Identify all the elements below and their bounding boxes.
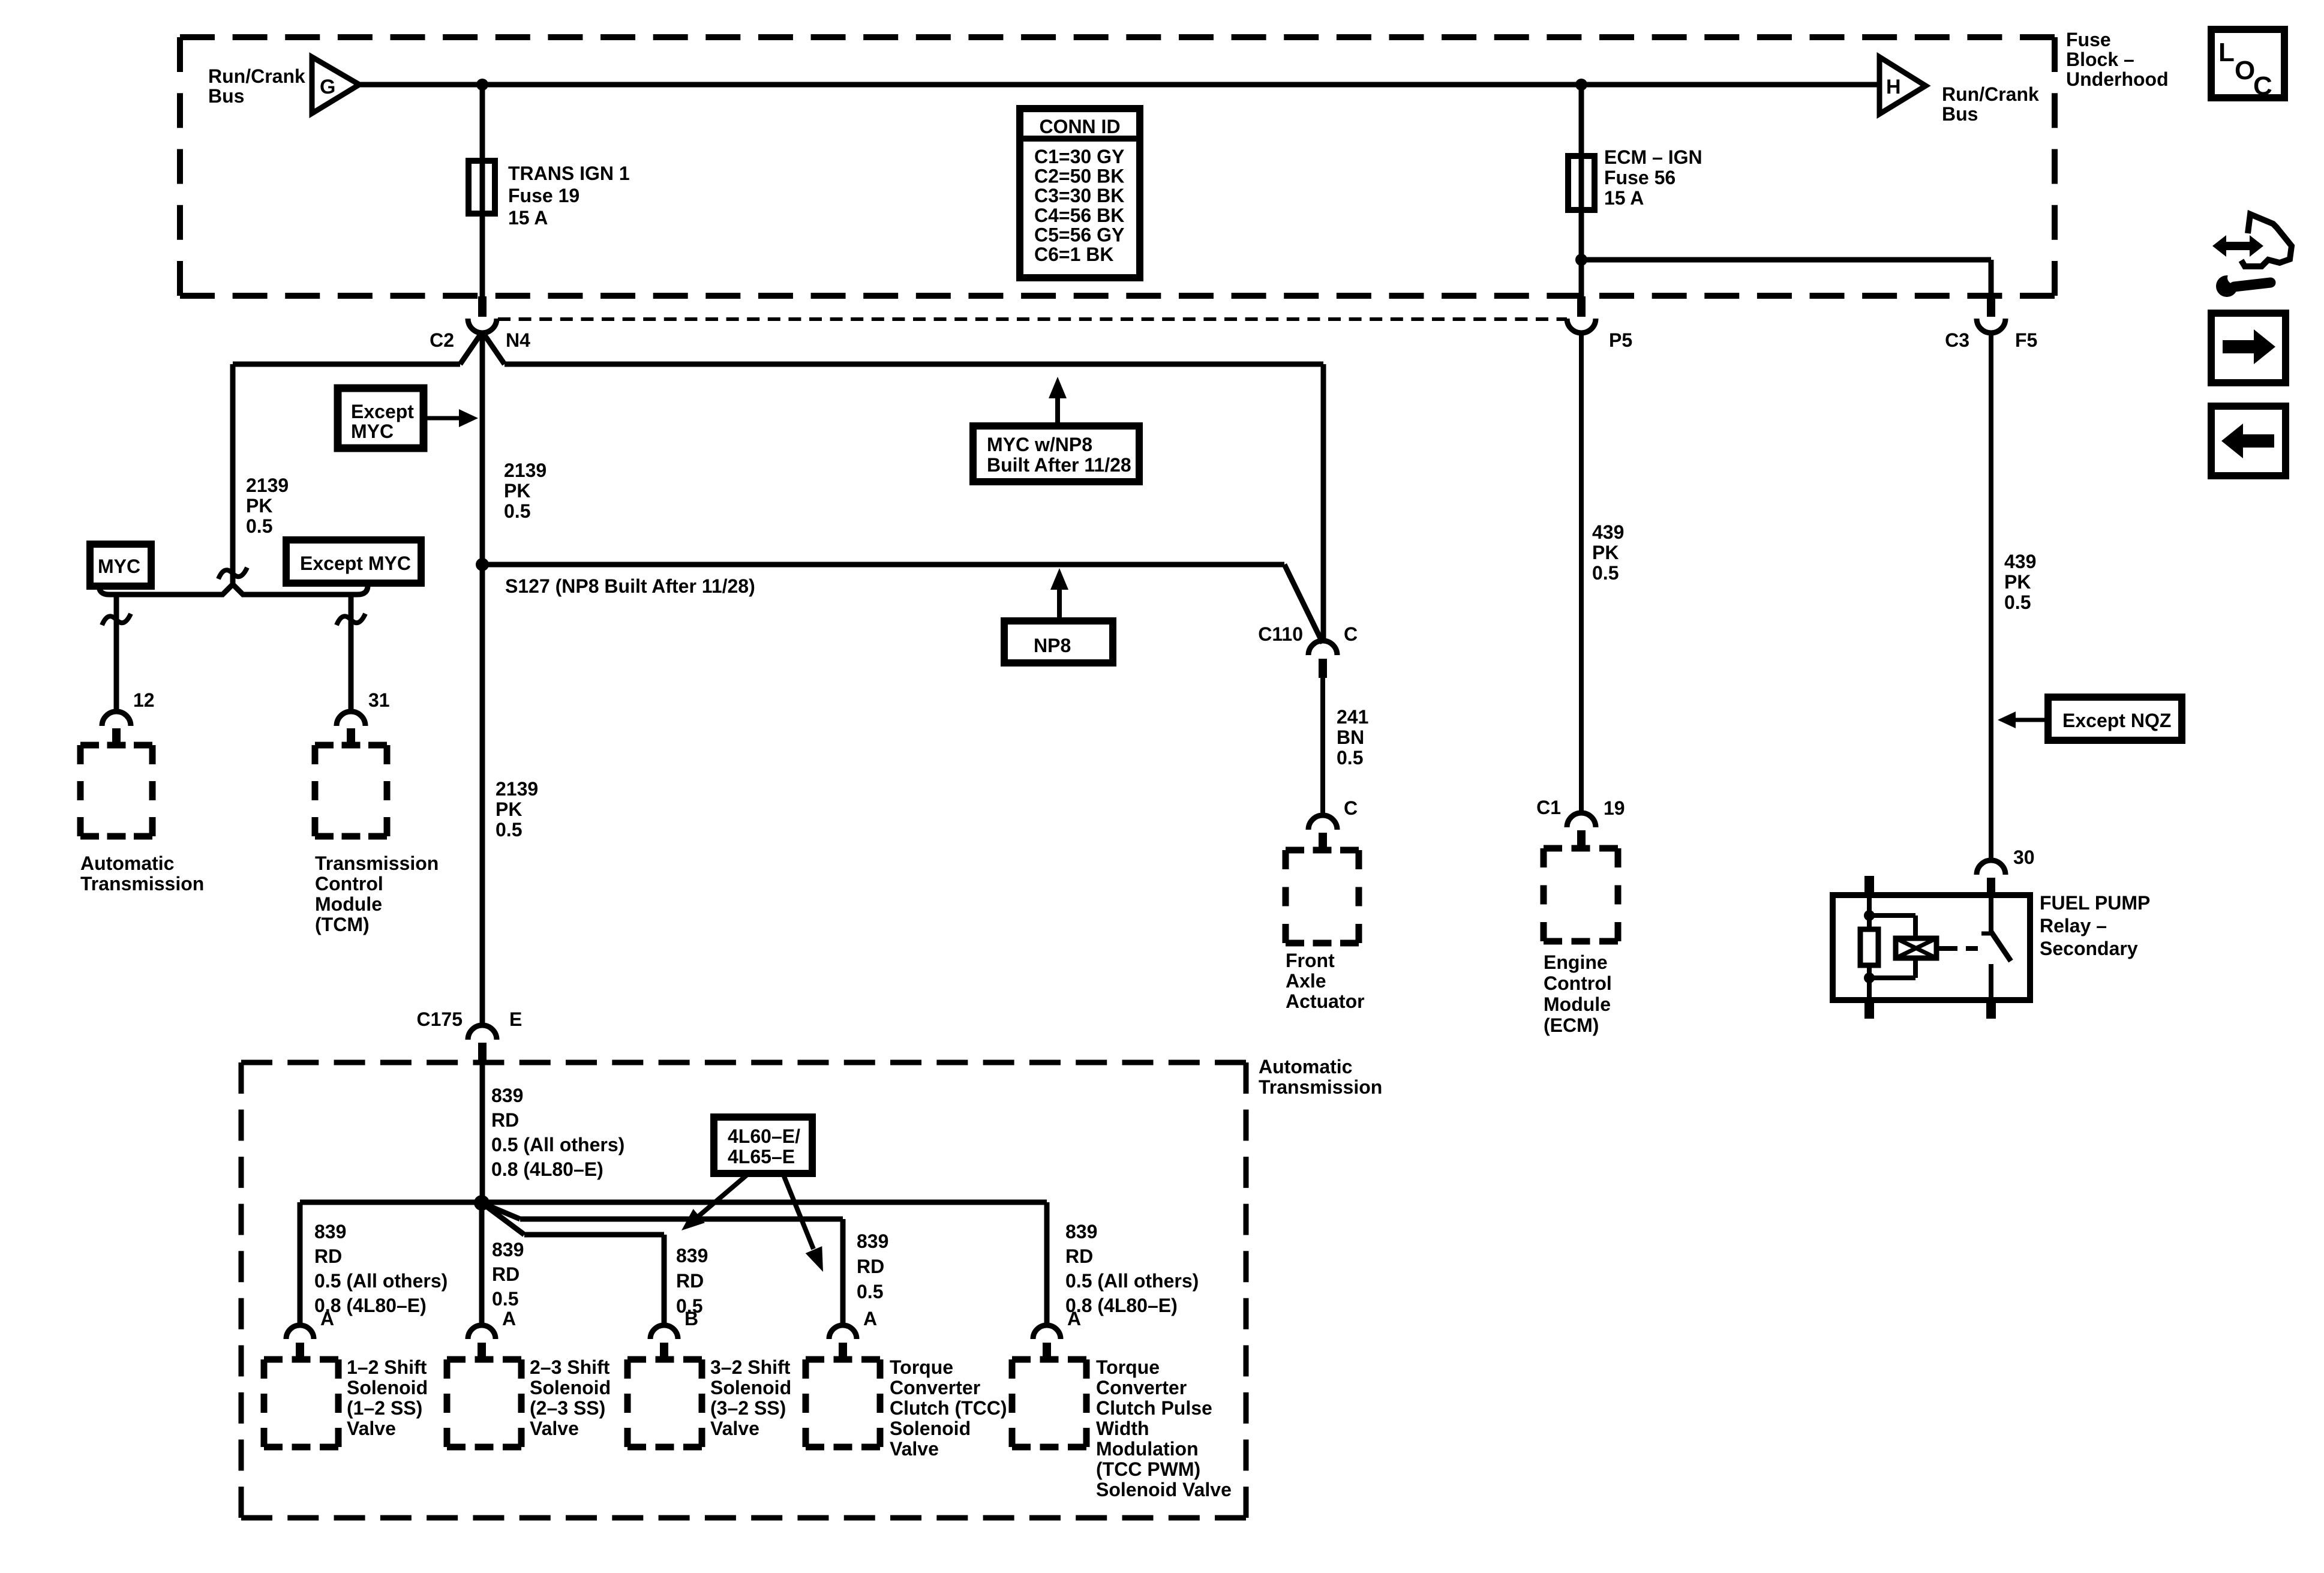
svg-text:P5: P5 xyxy=(1609,329,1632,351)
svg-text:Automatic: Automatic xyxy=(80,852,174,874)
svg-text:Except: Except xyxy=(351,401,414,422)
svg-text:15 A: 15 A xyxy=(508,207,548,229)
svg-text:Control: Control xyxy=(1544,972,1612,994)
svg-text:C1: C1 xyxy=(1536,797,1561,818)
svg-text:0.5: 0.5 xyxy=(1592,562,1619,584)
svg-text:241: 241 xyxy=(1337,706,1368,728)
svg-text:Bus: Bus xyxy=(1942,103,1978,125)
svg-text:839: 839 xyxy=(491,1085,523,1106)
svg-text:C110: C110 xyxy=(1258,623,1303,645)
svg-text:1–2 Shift: 1–2 Shift xyxy=(347,1356,427,1378)
svg-text:(2–3 SS): (2–3 SS) xyxy=(530,1397,605,1419)
svg-text:RD: RD xyxy=(492,1263,520,1285)
svg-text:(3–2 SS): (3–2 SS) xyxy=(710,1397,786,1419)
svg-text:839: 839 xyxy=(492,1239,524,1260)
svg-text:MYC w/NP8: MYC w/NP8 xyxy=(987,434,1092,455)
svg-text:Converter: Converter xyxy=(1096,1377,1187,1398)
svg-text:Transmission: Transmission xyxy=(80,873,204,894)
svg-text:0.5 (All others): 0.5 (All others) xyxy=(491,1134,624,1155)
svg-text:MYC: MYC xyxy=(98,556,140,577)
svg-text:Torque: Torque xyxy=(890,1356,953,1378)
svg-text:Valve: Valve xyxy=(710,1418,759,1439)
svg-text:C3: C3 xyxy=(1945,329,1969,351)
svg-text:H: H xyxy=(1886,76,1901,98)
svg-text:0.5: 0.5 xyxy=(246,515,272,537)
svg-text:C3=30 BK: C3=30 BK xyxy=(1034,185,1124,206)
svg-text:Fuse 19: Fuse 19 xyxy=(508,185,580,206)
svg-text:C6=1 BK: C6=1 BK xyxy=(1034,244,1114,265)
svg-text:(ECM): (ECM) xyxy=(1544,1014,1599,1036)
svg-text:C175: C175 xyxy=(417,1008,463,1030)
svg-text:0.8 (4L80–E): 0.8 (4L80–E) xyxy=(1065,1295,1178,1316)
svg-text:Fuse 56: Fuse 56 xyxy=(1604,167,1676,188)
svg-text:839: 839 xyxy=(1065,1221,1097,1242)
svg-text:E: E xyxy=(509,1008,522,1030)
svg-text:Except NQZ: Except NQZ xyxy=(2062,710,2171,731)
svg-text:C5=56 GY: C5=56 GY xyxy=(1034,224,1124,245)
svg-text:0.8 (4L80–E): 0.8 (4L80–E) xyxy=(314,1295,427,1316)
svg-text:TRANS IGN 1: TRANS IGN 1 xyxy=(508,163,630,184)
svg-text:Axle: Axle xyxy=(1286,970,1326,992)
svg-text:3–2 Shift: 3–2 Shift xyxy=(710,1356,791,1378)
svg-text:0.8 (4L80–E): 0.8 (4L80–E) xyxy=(491,1158,603,1180)
svg-text:Solenoid: Solenoid xyxy=(890,1418,971,1439)
svg-text:RD: RD xyxy=(314,1245,342,1267)
svg-text:C2=50 BK: C2=50 BK xyxy=(1034,166,1124,187)
svg-text:ECM – IGN: ECM – IGN xyxy=(1604,146,1703,168)
svg-text:S127 (NP8 Built After 11/28): S127 (NP8 Built After 11/28) xyxy=(505,575,755,597)
svg-text:L: L xyxy=(2218,38,2235,67)
svg-text:0.5: 0.5 xyxy=(504,500,530,522)
svg-text:Engine: Engine xyxy=(1544,951,1608,973)
svg-text:0.5: 0.5 xyxy=(2004,592,2031,613)
svg-text:C4=56 BK: C4=56 BK xyxy=(1034,205,1124,226)
svg-text:PK: PK xyxy=(496,798,522,820)
svg-text:RD: RD xyxy=(676,1270,704,1292)
svg-text:Built After 11/28: Built After 11/28 xyxy=(987,454,1131,476)
svg-text:C: C xyxy=(1344,797,1358,819)
svg-text:PK: PK xyxy=(504,480,530,502)
svg-text:839: 839 xyxy=(857,1230,888,1252)
svg-text:Block –: Block – xyxy=(2066,49,2134,70)
svg-text:0.5: 0.5 xyxy=(857,1281,883,1302)
svg-text:4L60–E/: 4L60–E/ xyxy=(728,1125,800,1147)
svg-text:PK: PK xyxy=(2004,571,2031,593)
svg-text:Module: Module xyxy=(315,893,382,915)
svg-text:G: G xyxy=(320,76,335,98)
svg-text:O: O xyxy=(2235,56,2255,85)
svg-text:Except MYC: Except MYC xyxy=(300,553,411,574)
svg-text:(TCC PWM): (TCC PWM) xyxy=(1096,1458,1200,1480)
svg-text:Underhood: Underhood xyxy=(2066,68,2169,90)
svg-text:Transmission: Transmission xyxy=(1259,1076,1382,1098)
svg-text:Relay –: Relay – xyxy=(2040,915,2107,936)
svg-text:C2: C2 xyxy=(430,329,454,351)
svg-text:31: 31 xyxy=(368,689,390,711)
svg-text:2139: 2139 xyxy=(496,778,538,800)
svg-text:0.5: 0.5 xyxy=(676,1295,702,1317)
svg-text:439: 439 xyxy=(1592,521,1624,543)
svg-text:Modulation: Modulation xyxy=(1096,1438,1199,1460)
svg-text:MYC: MYC xyxy=(351,421,394,442)
svg-text:Run/Crank: Run/Crank xyxy=(208,65,305,87)
svg-text:Solenoid: Solenoid xyxy=(710,1377,791,1398)
svg-text:2139: 2139 xyxy=(246,475,289,496)
svg-text:(TCM): (TCM) xyxy=(315,914,370,935)
svg-text:0.5: 0.5 xyxy=(492,1288,518,1310)
svg-text:PK: PK xyxy=(1592,542,1619,563)
svg-text:A: A xyxy=(502,1308,516,1329)
svg-text:Secondary: Secondary xyxy=(2040,938,2138,959)
svg-text:2139: 2139 xyxy=(504,460,547,481)
svg-text:12: 12 xyxy=(133,689,155,711)
svg-text:RD: RD xyxy=(857,1256,884,1277)
svg-text:Valve: Valve xyxy=(890,1438,939,1460)
svg-text:N4: N4 xyxy=(506,329,530,351)
svg-text:15 A: 15 A xyxy=(1604,187,1644,209)
svg-text:Valve: Valve xyxy=(347,1418,396,1439)
svg-text:2–3 Shift: 2–3 Shift xyxy=(530,1356,610,1378)
svg-text:0.5: 0.5 xyxy=(1337,747,1363,769)
svg-text:Valve: Valve xyxy=(530,1418,579,1439)
svg-text:Automatic: Automatic xyxy=(1259,1056,1352,1077)
svg-text:Front: Front xyxy=(1286,950,1335,971)
svg-text:30: 30 xyxy=(2013,846,2035,868)
svg-text:CONN ID: CONN ID xyxy=(1039,116,1120,137)
svg-text:Module: Module xyxy=(1544,993,1611,1015)
svg-text:839: 839 xyxy=(676,1245,708,1266)
svg-text:Bus: Bus xyxy=(208,85,244,107)
svg-text:Clutch (TCC): Clutch (TCC) xyxy=(890,1397,1007,1419)
svg-text:439: 439 xyxy=(2004,551,2036,572)
svg-text:Solenoid Valve: Solenoid Valve xyxy=(1096,1479,1232,1500)
svg-text:NP8: NP8 xyxy=(1034,635,1071,656)
svg-text:Actuator: Actuator xyxy=(1286,990,1365,1012)
svg-text:0.5 (All others): 0.5 (All others) xyxy=(1065,1270,1199,1292)
svg-text:Solenoid: Solenoid xyxy=(347,1377,428,1398)
svg-text:839: 839 xyxy=(314,1221,346,1242)
svg-text:Run/Crank: Run/Crank xyxy=(1942,83,2039,105)
svg-text:FUEL PUMP: FUEL PUMP xyxy=(2040,892,2150,914)
svg-text:C: C xyxy=(1344,623,1358,645)
svg-text:Clutch Pulse: Clutch Pulse xyxy=(1096,1397,1212,1419)
svg-text:C: C xyxy=(2253,71,2272,101)
svg-text:(1–2 SS): (1–2 SS) xyxy=(347,1397,422,1419)
svg-text:Torque: Torque xyxy=(1096,1356,1160,1378)
svg-text:19: 19 xyxy=(1604,797,1625,819)
svg-text:Fuse: Fuse xyxy=(2066,29,2111,50)
svg-text:C1=30 GY: C1=30 GY xyxy=(1034,146,1124,167)
svg-text:PK: PK xyxy=(246,495,272,517)
svg-text:F5: F5 xyxy=(2015,329,2037,351)
svg-text:A: A xyxy=(863,1308,877,1329)
svg-text:RD: RD xyxy=(491,1109,519,1131)
svg-text:0.5: 0.5 xyxy=(496,819,522,840)
svg-text:BN: BN xyxy=(1337,727,1364,748)
svg-text:4L65–E: 4L65–E xyxy=(728,1146,795,1167)
svg-text:Width: Width xyxy=(1096,1418,1149,1439)
svg-text:Transmission: Transmission xyxy=(315,852,439,874)
svg-text:RD: RD xyxy=(1065,1245,1093,1267)
svg-text:Converter: Converter xyxy=(890,1377,980,1398)
svg-text:Control: Control xyxy=(315,873,383,894)
svg-text:0.5 (All others): 0.5 (All others) xyxy=(314,1270,448,1292)
svg-text:Solenoid: Solenoid xyxy=(530,1377,611,1398)
